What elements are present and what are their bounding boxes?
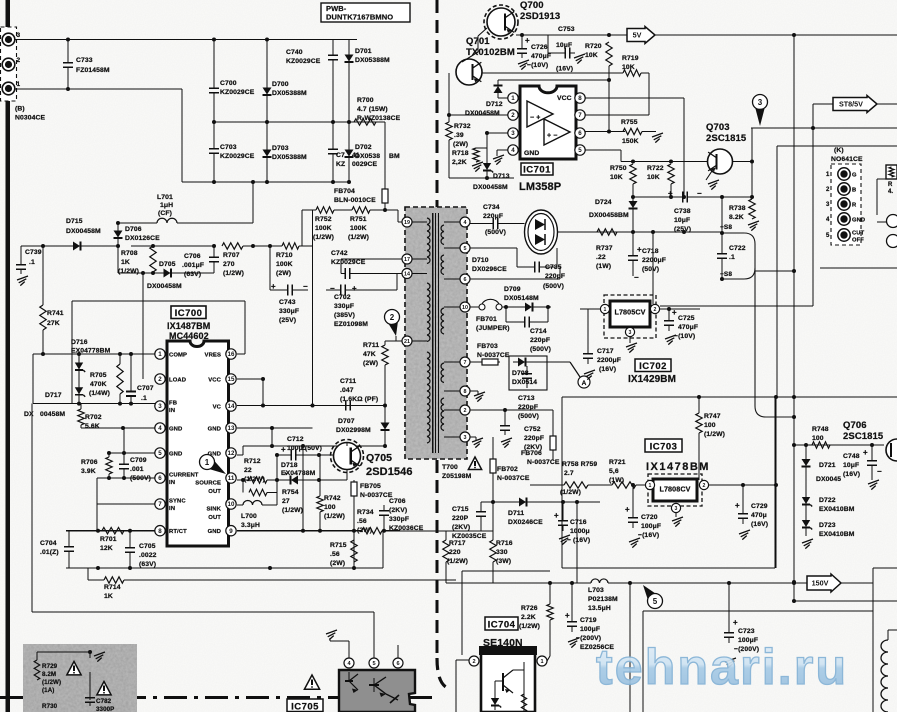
svg-text:+: + — [672, 308, 677, 317]
capacitor C707 — [130, 354, 132, 384]
transistor Q700 — [484, 5, 518, 39]
svg-text:D701: D701 — [355, 48, 372, 55]
svg-text:2: 2 — [390, 313, 395, 322]
svg-text:470μF: 470μF — [678, 324, 698, 331]
svg-text:VC: VC — [213, 404, 222, 410]
svg-text:.047: .047 — [340, 387, 354, 394]
svg-text:27K: 27K — [47, 320, 60, 327]
bottom block wires — [37, 651, 90, 653]
svg-text:(1/2W): (1/2W) — [118, 268, 139, 275]
IC700 pin 11 SOURCE OUT — [226, 473, 236, 483]
bottom fold dashed line — [0, 696, 432, 699]
svg-text:10μF: 10μF — [843, 462, 859, 469]
diode D700 — [266, 40, 268, 87]
wire y161 Q703 base bus — [621, 161, 708, 163]
IC704 label box — [485, 617, 518, 630]
svg-text:R726: R726 — [521, 605, 538, 612]
svg-text:OUT: OUT — [208, 515, 221, 521]
wire y271 right — [755, 270, 794, 272]
svg-text:R708: R708 — [121, 250, 138, 257]
capacitor C723 — [728, 583, 730, 629]
warning triangle 1 — [67, 662, 81, 675]
IC705 inner drawing — [348, 672, 350, 681]
Q700-Q701 link wires — [478, 28, 487, 36]
svg-text:KZ0029CE: KZ0029CE — [220, 153, 255, 160]
IC701 triangle A — [527, 101, 553, 127]
op-amp IC700 body — [167, 341, 229, 546]
svg-text:(2W): (2W) — [357, 527, 372, 534]
wire pin15 VCC riser — [237, 378, 263, 380]
svg-text:(500V): (500V) — [543, 283, 564, 290]
svg-text:C720: C720 — [641, 514, 658, 521]
IC700 pin 4 GND — [155, 423, 165, 433]
capacitor 10uF 16V — [548, 52, 560, 54]
wire y612 — [32, 611, 374, 613]
IC705 pin 5 — [369, 658, 379, 668]
resistor R710 — [282, 243, 299, 249]
svg-text:RT/CT: RT/CT — [169, 529, 187, 535]
right box flyback — [872, 568, 874, 712]
wire oval to R737 — [558, 231, 597, 233]
svg-text:(2W): (2W) — [453, 141, 468, 148]
capacitor C714 — [505, 307, 507, 322]
capacitor C748 — [871, 445, 873, 458]
svg-text:+: + — [554, 511, 559, 520]
wire y583 150V bus — [446, 582, 591, 584]
svg-text:EX0410BM: EX0410BM — [819, 506, 855, 513]
svg-text:R714: R714 — [104, 584, 121, 591]
power flag 5V — [627, 27, 655, 44]
svg-text:(1/2W): (1/2W) — [42, 679, 61, 686]
svg-text:FB703: FB703 — [477, 343, 498, 350]
wire y273 — [118, 272, 214, 274]
T700 pin 19 — [402, 217, 412, 227]
jumper FB701 — [470, 306, 479, 308]
diode D703 — [266, 99, 268, 147]
svg-text:270: 270 — [223, 261, 235, 268]
svg-text:(2KV): (2KV) — [389, 507, 407, 514]
svg-text:C703: C703 — [220, 144, 237, 151]
IC701 pin 4 — [508, 145, 518, 155]
regulator pin3 ground — [629, 337, 631, 343]
svg-text:R707: R707 — [223, 252, 240, 259]
svg-text:DX0296CE: DX0296CE — [472, 266, 507, 273]
ground pin8 — [470, 390, 478, 392]
svg-text:+: + — [735, 501, 740, 510]
svg-text:Q705: Q705 — [366, 452, 392, 464]
svg-text:.1: .1 — [141, 395, 147, 402]
inductor L701 — [118, 222, 157, 224]
svg-text:.1: .1 — [29, 259, 35, 266]
svg-text:R721: R721 — [609, 459, 626, 466]
wire pin1 bus — [15, 88, 182, 90]
svg-text:3: 3 — [511, 130, 515, 137]
T700 pin 7 — [460, 357, 470, 367]
wire y232 rectified bus — [558, 231, 722, 233]
svg-text:1K: 1K — [121, 259, 130, 266]
svg-text:TX0102BM: TX0102BM — [466, 47, 515, 58]
svg-text:DUNTK7167BMNO: DUNTK7167BMNO — [326, 13, 393, 22]
svg-text:2: 2 — [472, 659, 475, 665]
svg-text:−S8: −S8 — [720, 271, 732, 278]
wire IC704 top loop — [462, 570, 550, 572]
svg-text:2: 2 — [703, 483, 706, 489]
svg-text:(16V): (16V) — [599, 366, 616, 373]
svg-text:6: 6 — [578, 130, 582, 137]
svg-text:(1/2W): (1/2W) — [447, 558, 468, 565]
svg-text:.01(Z): .01(Z) — [40, 549, 59, 556]
svg-text:GND: GND — [208, 529, 221, 535]
svg-text:tehnari.ru: tehnari.ru — [596, 639, 846, 695]
diode D715 — [66, 245, 88, 247]
svg-text:D721: D721 — [819, 462, 836, 469]
svg-text:5: 5 — [372, 661, 375, 667]
svg-text:21: 21 — [404, 339, 410, 345]
svg-text:R742: R742 — [324, 495, 341, 502]
svg-text:R: R — [852, 203, 857, 209]
svg-text:+: + — [733, 618, 738, 627]
svg-text:C717: C717 — [597, 348, 614, 355]
svg-text:(1/2W): (1/2W) — [282, 507, 303, 514]
svg-text:D700: D700 — [272, 81, 289, 88]
svg-text:(2W): (2W) — [276, 270, 291, 277]
capacitor C715 — [480, 502, 482, 508]
T700 pin 4 — [460, 217, 470, 227]
svg-text:FB706: FB706 — [521, 450, 542, 457]
svg-text:IX1487BM: IX1487BM — [167, 321, 210, 331]
svg-text:D711: D711 — [508, 510, 524, 517]
svg-text:C712: C712 — [287, 436, 304, 443]
svg-text:LOAD: LOAD — [169, 377, 186, 383]
svg-text:2: 2 — [654, 307, 657, 313]
wire pin17 row — [341, 258, 402, 260]
svg-text:+: + — [863, 448, 868, 457]
svg-text:C725: C725 — [678, 315, 695, 322]
capacitor C720 — [632, 485, 634, 514]
svg-text:C709: C709 — [130, 457, 147, 464]
svg-text:D713: D713 — [493, 173, 510, 180]
wire y485 feed — [530, 484, 564, 486]
svg-text:330μF: 330μF — [334, 303, 354, 310]
resistor R721 — [612, 482, 636, 488]
resistor R741 — [42, 246, 44, 305]
svg-text:2: 2 — [826, 187, 830, 193]
T700 pin 2 — [460, 405, 470, 415]
T700 pin 3 — [460, 432, 470, 442]
capacitor C712 — [277, 454, 283, 456]
svg-text:7: 7 — [464, 360, 467, 366]
IC700 pin 2 LOAD — [155, 374, 165, 384]
resistor R716 — [492, 531, 494, 540]
svg-text:(K): (K) — [834, 147, 844, 154]
resistor R726 — [547, 604, 553, 620]
svg-text:2,2K: 2,2K — [452, 159, 467, 166]
capacitor C742 — [340, 259, 342, 274]
svg-text:(1/2W): (1/2W) — [348, 234, 369, 241]
IC705 label box — [287, 699, 323, 712]
svg-text:(1/4W): (1/4W) — [89, 390, 110, 397]
wire to R710 — [243, 245, 282, 247]
svg-text:C705: C705 — [139, 543, 156, 550]
svg-text:100: 100 — [324, 504, 336, 511]
svg-text:R737: R737 — [596, 245, 613, 252]
IC704 inner zener — [494, 694, 496, 710]
svg-text:+: + — [352, 284, 357, 293]
diode D721 — [805, 445, 807, 458]
svg-text:C713: C713 — [518, 395, 535, 402]
flag 5 pointer — [648, 594, 663, 609]
svg-text:D722: D722 — [819, 497, 836, 504]
svg-text:3.3μH: 3.3μH — [241, 522, 260, 529]
svg-text:R748: R748 — [812, 426, 829, 433]
wire pin13 row — [237, 427, 313, 429]
warning triangle IC705 — [304, 675, 319, 689]
svg-text:C706: C706 — [184, 253, 201, 260]
IC704 pin 1 — [537, 656, 547, 666]
resistor R747 — [698, 397, 700, 413]
svg-text:1000μ: 1000μ — [570, 528, 590, 535]
svg-text:N-0037CE: N-0037CE — [497, 475, 530, 482]
svg-text:22: 22 — [244, 467, 252, 474]
IC701 pin 8 — [575, 93, 585, 103]
svg-text:IN: IN — [169, 408, 175, 414]
transformer primary winding — [427, 218, 430, 264]
svg-text:5.6K: 5.6K — [85, 423, 100, 430]
IC701 pin 1 — [508, 93, 518, 103]
svg-text:R758 R759: R758 R759 — [562, 461, 597, 468]
IC705 pin6 stub — [397, 645, 399, 658]
svg-text:IC700: IC700 — [175, 308, 203, 319]
svg-text:1: 1 — [604, 307, 607, 313]
svg-text:DX0514: DX0514 — [512, 379, 537, 386]
wire y397 long bus — [562, 396, 897, 398]
svg-text:T700: T700 — [442, 464, 458, 471]
svg-text:.1: .1 — [729, 254, 735, 261]
svg-text:KZ: KZ — [336, 161, 345, 168]
wire pin4 GND row — [81, 427, 155, 429]
zener D713 — [486, 133, 488, 162]
svg-text:DX02998M: DX02998M — [336, 427, 371, 434]
wire +S8 — [722, 232, 744, 234]
zener D717 — [78, 379, 80, 404]
IC703 enclosure — [561, 397, 563, 568]
IC701 pin 3 — [508, 128, 518, 138]
svg-text:13: 13 — [228, 425, 235, 432]
svg-text:100K: 100K — [276, 261, 293, 268]
diode D712 — [497, 80, 499, 98]
svg-text:5: 5 — [653, 597, 658, 606]
svg-text:5V: 5V — [633, 31, 642, 40]
svg-text:8.2K: 8.2K — [729, 214, 744, 221]
svg-text:R717: R717 — [449, 540, 466, 547]
svg-text:(63V): (63V) — [139, 561, 156, 568]
resistor R705 — [119, 354, 121, 364]
capacitor C734 — [470, 223, 486, 225]
svg-text:OUT: OUT — [208, 489, 221, 495]
zener D718 — [284, 479, 304, 481]
svg-text:1: 1 — [511, 95, 515, 102]
svg-text:SINK: SINK — [207, 507, 222, 513]
svg-text:(500V): (500V) — [518, 413, 539, 420]
vertical x794 lower — [793, 583, 795, 601]
capacitor C733 — [67, 40, 69, 59]
svg-text:3.9K: 3.9K — [81, 468, 96, 475]
svg-text:R719: R719 — [622, 55, 639, 62]
svg-text:8.2M: 8.2M — [42, 671, 56, 678]
svg-text:2: 2 — [158, 376, 162, 383]
svg-text:2SD1546: 2SD1546 — [366, 466, 413, 478]
svg-text:L7808CV: L7808CV — [659, 485, 690, 494]
wire reg2 out — [709, 484, 776, 486]
svg-text:C702: C702 — [334, 294, 351, 301]
svg-text:2SC1815: 2SC1815 — [706, 133, 747, 144]
wire y182 — [182, 181, 349, 183]
svg-text:IX1429BM: IX1429BM — [628, 374, 676, 385]
svg-text:7: 7 — [158, 501, 162, 508]
transistor Q701 — [456, 59, 482, 85]
svg-text:+: + — [281, 445, 286, 454]
svg-text:2SC1815: 2SC1815 — [843, 431, 884, 442]
svg-text:(B): (B) — [15, 106, 25, 113]
wire y611 box — [643, 610, 873, 612]
svg-text:R750: R750 — [610, 165, 627, 172]
svg-text:R754: R754 — [282, 489, 299, 496]
svg-text:.001μF: .001μF — [182, 262, 204, 269]
svg-text:2200μF: 2200μF — [642, 257, 666, 264]
wire y178 — [449, 177, 514, 179]
IC700 pin 12 GND — [226, 448, 236, 458]
fuse FB702 — [492, 437, 494, 459]
wire pin12 to C712 — [237, 454, 243, 456]
svg-text:15: 15 — [228, 376, 235, 383]
warning triangle near T700 — [468, 457, 481, 469]
node riser x312 — [312, 210, 314, 406]
svg-text:330: 330 — [496, 549, 508, 556]
svg-text:1μH: 1μH — [160, 202, 173, 209]
svg-text:(CF): (CF) — [158, 210, 172, 217]
wire flag3 vertical — [751, 127, 897, 129]
svg-text:DX00458M: DX00458M — [473, 184, 508, 191]
IC705 body dark block — [339, 670, 415, 712]
svg-text:14: 14 — [228, 403, 235, 410]
svg-text:IC701: IC701 — [523, 165, 551, 176]
T700 pin 8 — [460, 386, 470, 396]
svg-text:(1W): (1W) — [596, 263, 611, 270]
svg-text:IC705: IC705 — [291, 702, 319, 712]
wire y80 D712 row — [498, 79, 609, 81]
bottom left shaded block — [23, 644, 137, 712]
IC700 pin 13 GND — [226, 423, 236, 433]
node A — [547, 361, 570, 363]
wire C743 left feed — [269, 246, 271, 290]
svg-text:C718: C718 — [642, 248, 659, 255]
IC700 label box — [171, 306, 206, 319]
svg-text:00458M: 00458M — [40, 411, 65, 418]
svg-text:(500V): (500V) — [485, 229, 506, 236]
svg-text:+ −: + − — [547, 133, 557, 140]
IC700 pin 3 FB IN — [155, 401, 165, 411]
resistor R752 — [316, 207, 334, 213]
svg-text:GND: GND — [169, 426, 182, 432]
resistor R715 — [351, 540, 357, 562]
wire FB pin3 row — [33, 403, 155, 405]
svg-text:R: R — [888, 182, 893, 188]
capacitor C726 — [521, 35, 523, 46]
IC700 pin 10 SINK OUT — [226, 499, 236, 509]
IC704 inner resistor — [521, 694, 526, 712]
svg-text:R732: R732 — [454, 123, 471, 130]
svg-text:3300P: 3300P — [96, 706, 114, 712]
svg-text:GND: GND — [852, 218, 865, 224]
IC701 pin 2 — [508, 110, 518, 120]
vertical rail x776 — [775, 397, 777, 568]
svg-text:(16V): (16V) — [843, 471, 860, 478]
svg-text:1K: 1K — [104, 593, 113, 600]
transformer core — [432, 213, 434, 453]
diode D709 — [502, 306, 519, 308]
svg-text:G: G — [852, 173, 857, 179]
svg-text:(3W): (3W) — [496, 558, 511, 565]
wire y445 Q706 bus — [794, 444, 884, 446]
capacitor C739 — [20, 246, 22, 262]
svg-text:(1W): (1W) — [609, 477, 624, 484]
svg-text:N0304CE: N0304CE — [15, 115, 46, 122]
svg-text:2SD1913: 2SD1913 — [520, 11, 560, 22]
capacitor C706 2KV — [383, 505, 385, 508]
svg-text:R751: R751 — [350, 216, 367, 223]
svg-text:DX0246CE: DX0246CE — [508, 519, 543, 526]
svg-text:(2W): (2W) — [330, 560, 345, 567]
capacitor C705 — [129, 531, 131, 544]
resistor R719 — [482, 72, 623, 74]
wire pin5 to C735 — [470, 247, 517, 249]
IC701 label box — [521, 163, 553, 175]
svg-text:R752: R752 — [315, 216, 332, 223]
IC701 pin 5 — [575, 145, 585, 155]
wire y197 C738 row — [633, 196, 675, 198]
resistor R717 — [445, 531, 447, 540]
svg-text:FB: FB — [169, 401, 177, 407]
svg-text:C782: C782 — [96, 698, 112, 705]
IC701 pin 7 — [575, 110, 585, 120]
svg-text:10μF: 10μF — [674, 217, 690, 224]
IC701 pin 6 — [575, 128, 585, 138]
svg-text:COMP: COMP — [169, 352, 187, 358]
svg-text:(2W): (2W) — [363, 360, 378, 367]
svg-text:−: − — [877, 467, 882, 476]
svg-text:.56: .56 — [330, 551, 340, 558]
svg-text:−(16V): −(16V) — [638, 532, 659, 539]
transformer secondary windings — [441, 225, 444, 245]
IC704 pin 2 — [469, 656, 479, 666]
svg-text:Q706: Q706 — [843, 420, 867, 431]
warning triangle 2 — [97, 682, 111, 695]
svg-text:C722: C722 — [729, 245, 746, 252]
resistor R722 — [668, 164, 674, 184]
capacitor C738 — [675, 196, 683, 198]
transformer T700 shaded block — [405, 207, 467, 459]
svg-text:10K: 10K — [622, 64, 635, 71]
svg-text:R710: R710 — [276, 252, 293, 259]
svg-text:DX0045: DX0045 — [816, 476, 841, 483]
svg-text:(1/2W): (1/2W) — [313, 234, 334, 241]
svg-text:N-0037CE: N-0037CE — [360, 492, 393, 499]
svg-text:−: − — [634, 273, 639, 282]
wire x630 riser — [629, 583, 631, 712]
svg-text:4: 4 — [464, 220, 467, 226]
svg-text:470μ: 470μ — [751, 512, 767, 519]
svg-text:10K: 10K — [585, 52, 598, 59]
